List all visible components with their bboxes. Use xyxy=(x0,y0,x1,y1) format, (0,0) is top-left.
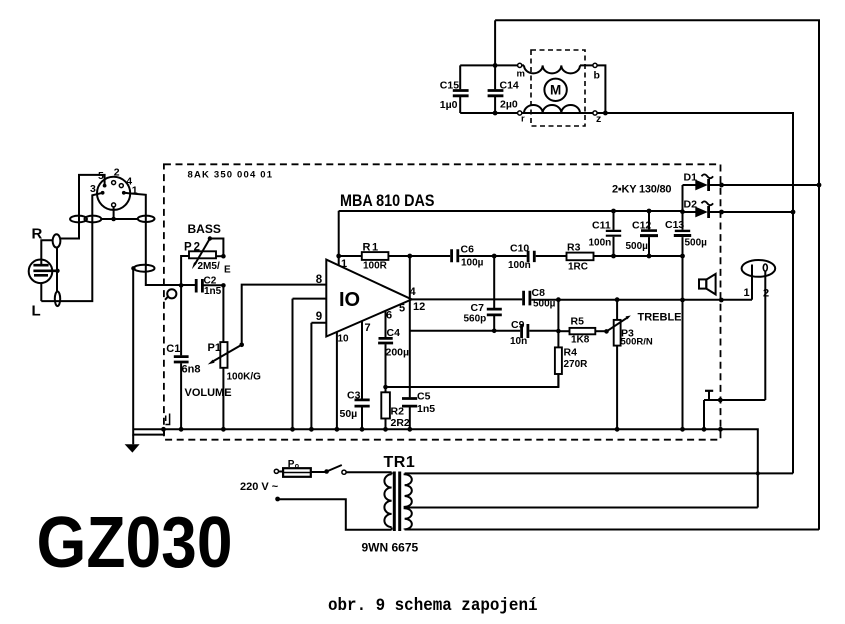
svg-text:R2: R2 xyxy=(391,406,405,418)
svg-text:R3: R3 xyxy=(567,242,581,254)
svg-text:m: m xyxy=(517,69,525,80)
svg-text:200µ: 200µ xyxy=(386,347,410,359)
svg-text:100n: 100n xyxy=(589,238,612,249)
svg-text:4: 4 xyxy=(410,286,417,298)
svg-text:P: P xyxy=(288,459,295,470)
svg-text:P2: P2 xyxy=(184,242,202,254)
svg-text:500R/N: 500R/N xyxy=(621,337,653,348)
svg-text:C12: C12 xyxy=(632,220,651,232)
svg-text:500µ: 500µ xyxy=(626,241,649,252)
svg-text:560p: 560p xyxy=(464,314,487,325)
svg-text:BASS: BASS xyxy=(188,222,221,236)
svg-text:5: 5 xyxy=(98,170,104,182)
svg-text:TR1: TR1 xyxy=(384,454,416,471)
svg-text:z: z xyxy=(596,113,601,125)
svg-text:2: 2 xyxy=(114,167,120,179)
svg-text:C13: C13 xyxy=(665,219,684,231)
svg-text:12: 12 xyxy=(413,301,425,313)
svg-text:IO: IO xyxy=(339,289,360,311)
svg-text:D2: D2 xyxy=(684,199,698,211)
svg-text:r: r xyxy=(521,114,525,125)
svg-text:2M5/: 2M5/ xyxy=(198,261,220,272)
svg-text:6n8: 6n8 xyxy=(182,364,201,376)
svg-text:C8: C8 xyxy=(532,287,546,299)
svg-text:6: 6 xyxy=(386,310,392,322)
svg-text:500µ: 500µ xyxy=(685,238,708,249)
svg-text:D1: D1 xyxy=(684,172,698,184)
svg-text:GZ030: GZ030 xyxy=(37,502,233,583)
svg-text:1: 1 xyxy=(132,185,138,197)
svg-text:C15: C15 xyxy=(440,80,459,92)
svg-text:7: 7 xyxy=(365,322,371,334)
svg-text:E: E xyxy=(224,265,231,276)
svg-text:270R: 270R xyxy=(564,359,589,370)
svg-text:R: R xyxy=(32,226,43,243)
svg-text:220 V ~: 220 V ~ xyxy=(240,481,279,493)
svg-text:2R2: 2R2 xyxy=(391,417,410,429)
svg-text:o: o xyxy=(295,463,299,470)
svg-text:1K8: 1K8 xyxy=(571,335,590,346)
svg-text:3: 3 xyxy=(90,183,96,195)
svg-text:50µ: 50µ xyxy=(340,408,358,420)
svg-text:1µ0: 1µ0 xyxy=(440,99,458,111)
svg-text:8AK 350 004 01: 8AK 350 004 01 xyxy=(188,170,273,181)
svg-text:10n: 10n xyxy=(510,336,527,347)
svg-text:1: 1 xyxy=(744,287,750,299)
svg-text:VOLUME: VOLUME xyxy=(185,387,232,399)
svg-text:C11: C11 xyxy=(592,220,611,232)
svg-text:obr. 9 schema zapojení: obr. 9 schema zapojení xyxy=(328,597,538,616)
svg-text:R4: R4 xyxy=(564,347,578,359)
svg-text:C4: C4 xyxy=(387,327,401,339)
svg-text:C14: C14 xyxy=(500,80,519,92)
svg-text:1n5: 1n5 xyxy=(204,286,222,297)
svg-text:100K/G: 100K/G xyxy=(227,372,262,383)
svg-text:C9: C9 xyxy=(511,319,525,331)
svg-text:2: 2 xyxy=(763,288,769,300)
svg-text:8: 8 xyxy=(316,274,323,286)
svg-text:L: L xyxy=(32,303,41,320)
svg-text:C10: C10 xyxy=(510,243,529,255)
svg-text:C5: C5 xyxy=(417,391,431,403)
svg-text:P1: P1 xyxy=(208,342,221,354)
svg-text:M: M xyxy=(550,83,561,98)
svg-text:2▪KY 130/80: 2▪KY 130/80 xyxy=(612,184,672,196)
svg-text:100R: 100R xyxy=(363,261,388,272)
svg-text:MBA 810 DAS: MBA 810 DAS xyxy=(340,191,435,210)
svg-text:b: b xyxy=(594,70,600,82)
svg-text:100n: 100n xyxy=(508,260,531,271)
svg-text:500µ: 500µ xyxy=(533,299,556,310)
svg-text:R1: R1 xyxy=(363,242,380,254)
svg-text:1: 1 xyxy=(341,258,347,270)
svg-text:2µ0: 2µ0 xyxy=(500,99,518,111)
svg-text:5: 5 xyxy=(399,303,405,315)
svg-text:TREBLE: TREBLE xyxy=(638,312,682,324)
svg-text:C7: C7 xyxy=(471,302,485,314)
svg-text:C3: C3 xyxy=(347,390,361,402)
svg-text:C6: C6 xyxy=(461,244,475,256)
svg-text:1RC: 1RC xyxy=(568,262,588,273)
svg-text:9WN 6675: 9WN 6675 xyxy=(362,541,419,555)
svg-text:R5: R5 xyxy=(571,316,585,328)
svg-text:1n5: 1n5 xyxy=(417,403,435,415)
svg-text:10: 10 xyxy=(338,334,350,345)
svg-text:100µ: 100µ xyxy=(461,257,484,268)
svg-text:9: 9 xyxy=(316,311,322,323)
svg-text:C1: C1 xyxy=(166,343,180,355)
